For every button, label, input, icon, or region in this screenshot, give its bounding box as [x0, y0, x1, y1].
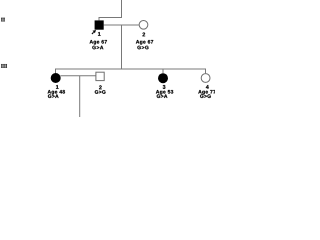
- III-1 number 1: [56, 85, 59, 89]
- II-1 number 1: [98, 32, 101, 36]
- III-2 genotype G>G: [95, 90, 106, 94]
- II-2 number 2: [142, 33, 145, 37]
- III-3 genotype G>A: [157, 94, 168, 98]
- wire: descent to generation IV: [79, 76, 81, 117]
- III-1 age label: [48, 90, 65, 95]
- III-4 age label: [198, 90, 215, 95]
- individual II-1 affected male (filled square): [95, 20, 104, 29]
- wire: couple line III-1 to III-2: [60, 75, 95, 77]
- individual III-4 unaffected female (open circle): [201, 74, 210, 83]
- wire: descent from II couple to III sibship: [121, 25, 123, 69]
- individual II-2 unaffected female (open circle): [139, 20, 148, 29]
- proband arrow: [92, 32, 94, 34]
- II-1 age label: [90, 40, 107, 45]
- III-1 genotype G>A: [48, 94, 59, 98]
- wire: couple line II-1 to II-2: [104, 24, 139, 26]
- individual III-2 unaffected male spouse (open square): [96, 72, 104, 80]
- wire: descent from generation I (elbow to II-1): [99, 0, 122, 20]
- III-3 age label: [156, 90, 173, 95]
- III-4 genotype G>G: [200, 94, 211, 98]
- individual III-1 affected female (filled circle): [51, 73, 61, 83]
- III-3 number 3: [163, 85, 166, 89]
- generation label II: [1, 18, 5, 21]
- II-2 genotype G>G: [137, 46, 148, 50]
- II-2 age label: [136, 40, 153, 45]
- III-2 number 2: [99, 85, 102, 89]
- wire: drop to III-4: [205, 69, 207, 74]
- wire: drop to III-1: [55, 69, 57, 74]
- wire: drop to III-3: [162, 69, 164, 74]
- individual III-3 affected female (filled circle): [158, 73, 168, 83]
- II-1 genotype G>A: [92, 46, 103, 50]
- III-4 number 4: [206, 85, 209, 89]
- generation label III: [1, 64, 7, 67]
- wire: sibship line generation III: [56, 68, 206, 70]
- pedigree chart canvas: [0, 0, 215, 120]
